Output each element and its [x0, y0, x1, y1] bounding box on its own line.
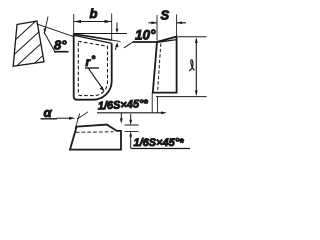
front view cutting edge (top, 10deg): [74, 34, 112, 40]
svg-text:1/6S×45°*: 1/6S×45°*: [134, 137, 185, 149]
arrow from label 1 down to top edge of bottom view: [120, 113, 122, 120]
side view outline: [153, 37, 177, 93]
S extension lines: [157, 15, 177, 41]
flank extension tick with arrow: [45, 17, 48, 30]
alpha angle arc tick: [77, 112, 88, 119]
extension from side view bottom chamfer to label 1: [152, 93, 157, 113]
dimension b line: [74, 21, 112, 23]
angle arrow to datum (down): [116, 23, 118, 30]
chamfer height dimension line with outside arrows: [130, 114, 132, 148]
hidden bottom-face outline (dashed): [78, 41, 107, 95]
svg-text:α: α: [44, 105, 53, 120]
svg-text:*: *: [92, 54, 96, 64]
leader 10 deg: [124, 42, 133, 48]
datum line for 10 deg: [74, 33, 127, 35]
dimension S (arrows outside): [149, 22, 187, 24]
bottom view outline: [70, 125, 121, 150]
side view top far edge: [157, 40, 176, 43]
l extension lines: [156, 37, 207, 97]
chamfer height dimension ticks: [125, 125, 139, 131]
label l (cursive ell, rotated): [189, 60, 194, 71]
leader to 8 deg label: [44, 32, 55, 51]
angle arrow to edge (up): [115, 45, 116, 50]
dimension l line: [195, 39, 197, 95]
alpha leader arrow: [57, 117, 71, 119]
bottom view hidden line (dashed): [76, 131, 114, 134]
svg-text:b: b: [90, 6, 98, 21]
tool shank hatched section: [0, 0, 70, 102]
svg-text:8°: 8°: [54, 38, 67, 53]
cutting edge thin extension: [112, 40, 121, 42]
svg-text:S: S: [161, 8, 170, 23]
side view hidden edge (dashed): [158, 44, 161, 92]
b extension lines: [74, 14, 112, 41]
line from shank corner to front view: [37, 24, 74, 37]
front view chamfer edge below cutting edge: [74, 35, 111, 43]
alpha extension line: [75, 114, 80, 129]
front view outline: [74, 34, 112, 100]
leader arrow r to corner radius: [89, 69, 103, 88]
svg-text:10°: 10°: [135, 28, 156, 43]
